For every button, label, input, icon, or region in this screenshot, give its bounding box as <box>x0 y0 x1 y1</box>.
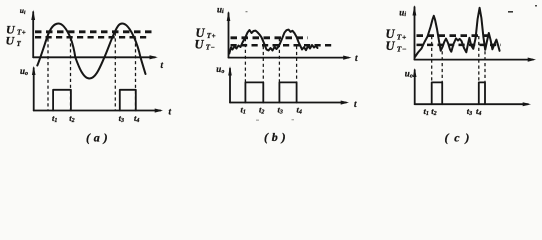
t-axis (a) output graph <box>34 110 161 112</box>
y-axis (b) output graph <box>229 69 231 103</box>
t-axis arrowhead (c) output graph <box>523 102 531 106</box>
scan speckle far right <box>535 5 537 7</box>
y-axis (b) input graph <box>228 13 230 58</box>
threshold line U_T+ (b) <box>231 36 309 39</box>
y-axis arrowhead (b) output graph <box>228 66 232 75</box>
svg-text:T+: T+ <box>397 32 407 41</box>
t-axis arrowhead (a) output graph <box>155 109 163 113</box>
svg-text:( a ): ( a ) <box>86 130 108 144</box>
svg-text:T−: T− <box>397 44 407 53</box>
t-axis arrowhead (b) output graph <box>341 101 349 105</box>
scan speckle above (b) <box>246 11 248 12</box>
t-axis (a) input graph <box>33 56 155 58</box>
y-axis (a) output graph <box>33 68 35 111</box>
scan speckle below (b) caption row <box>256 120 259 121</box>
marker line t4 (c) <box>484 45 486 82</box>
scan speckle right of (b) caption row <box>292 119 295 120</box>
svg-text:( b ): ( b ) <box>264 130 286 144</box>
marker line t4 (b) <box>296 46 298 82</box>
y-axis (c) output graph <box>414 70 416 104</box>
t-axis (c) output graph <box>415 103 528 105</box>
svg-text:U: U <box>6 34 16 48</box>
svg-text:T−: T− <box>206 44 216 52</box>
svg-text:U: U <box>195 38 205 52</box>
threshold line U_T- (c) <box>417 44 502 47</box>
marker line t1 (b) <box>244 38 246 82</box>
y-axis arrowhead (c) input graph <box>413 5 417 16</box>
y-axis arrowhead (b) input graph <box>227 11 231 21</box>
input spiky wave (c) <box>415 8 500 57</box>
svg-text:T+: T+ <box>207 32 216 40</box>
marker line t2 (a) <box>70 38 72 111</box>
output pulse waveform (b) <box>245 82 296 102</box>
marker line t1 (a) <box>47 33 49 111</box>
y-axis arrowhead (a) input graph <box>31 10 35 20</box>
t-axis (b) input graph <box>229 57 349 59</box>
t-axis (c) input graph <box>415 59 534 61</box>
t-axis (b) output graph <box>230 102 346 104</box>
y-axis (c) input graph <box>414 7 416 60</box>
threshold line U_T+ (a) <box>35 30 153 33</box>
scan speckle top right <box>508 11 513 13</box>
marker line t2 (b) <box>262 46 264 82</box>
svg-text:( c ): ( c ) <box>445 131 471 145</box>
svg-text:T: T <box>17 40 22 48</box>
marker line t3 (a) <box>114 33 116 111</box>
marker line t4 (a) <box>135 38 137 111</box>
input sine wave (a) <box>37 24 145 79</box>
t-axis arrowhead (a) input graph <box>150 55 158 59</box>
t-axis arrowhead (c) input graph <box>528 58 536 62</box>
threshold line U_T+ (c) <box>417 34 491 37</box>
t-axis arrowhead (b) input graph <box>343 56 351 60</box>
y-axis arrowhead (c) output graph <box>413 68 417 77</box>
marker line t3 (c) <box>478 36 480 82</box>
y-axis arrowhead (a) output graph <box>32 66 36 75</box>
svg-text:T+: T+ <box>17 29 26 37</box>
output pulse waveform (a) <box>53 90 136 111</box>
marker line t3 (b) <box>278 38 280 82</box>
marker line t2 (c) <box>441 45 443 82</box>
y-axis (a) input graph <box>32 12 34 57</box>
svg-text:U: U <box>386 39 396 53</box>
threshold line U_T- (a) <box>35 36 149 39</box>
input noisy wave (b) <box>229 30 317 54</box>
marker line t1 (c) <box>431 36 433 82</box>
output pulse waveform (c) <box>432 82 485 104</box>
threshold line U_T- (b) <box>231 44 334 47</box>
